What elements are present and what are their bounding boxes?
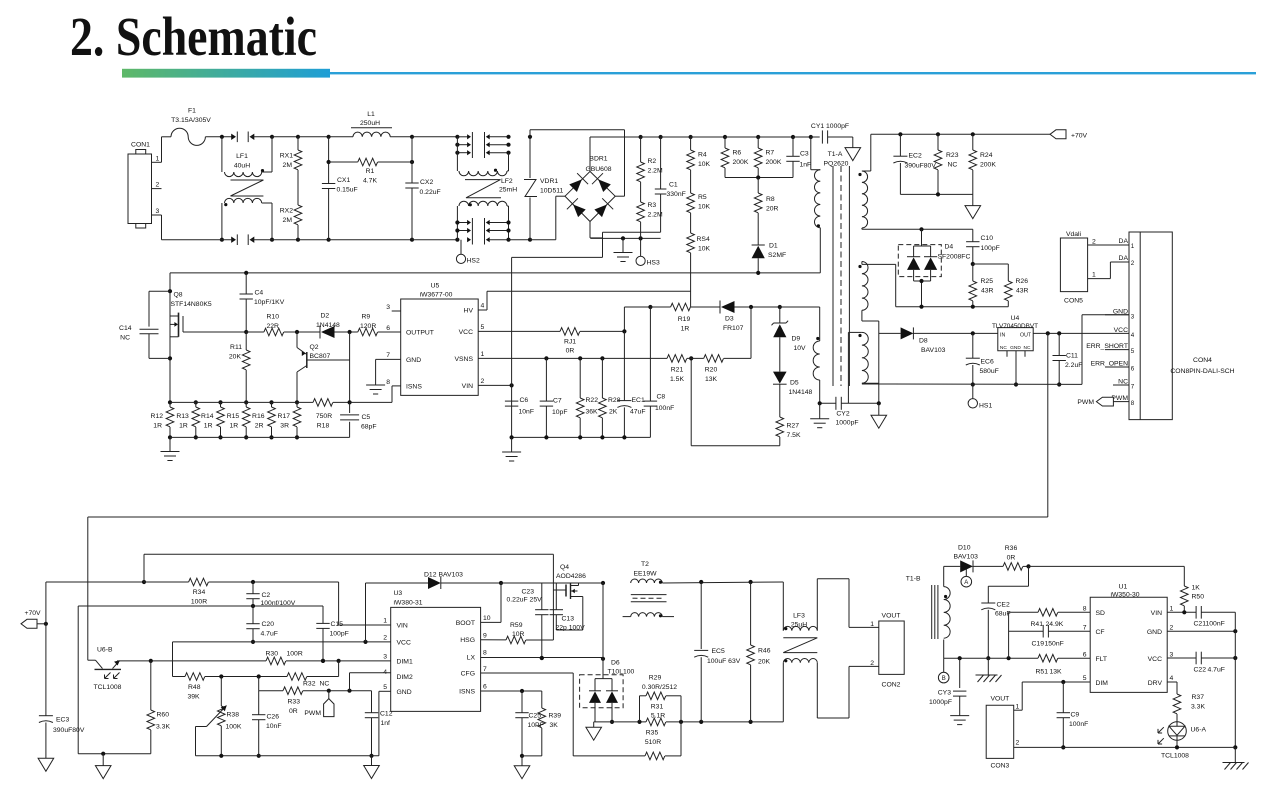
circle A probe	[961, 566, 972, 587]
ground at R12	[161, 437, 180, 460]
svg-text:TCL1008: TCL1008	[1161, 753, 1189, 760]
svg-text:2: 2	[870, 660, 874, 667]
svg-text:7: 7	[386, 352, 390, 359]
capacitor EC3	[39, 716, 85, 759]
IC U1 iW350-30	[1090, 584, 1167, 693]
U5 pin 8	[386, 379, 390, 386]
resistor R27	[776, 384, 801, 446]
resistor R28	[599, 358, 621, 437]
svg-text:3R: 3R	[280, 423, 289, 430]
T1 secondary W2	[858, 262, 868, 311]
svg-text:7: 7	[483, 666, 487, 673]
resistor R19	[650, 303, 690, 332]
svg-text:Vdali: Vdali	[1066, 231, 1082, 238]
svg-text:1: 1	[1170, 606, 1174, 613]
svg-text:R31: R31	[651, 704, 664, 711]
svg-text:BAV103: BAV103	[439, 572, 464, 579]
wire ISNS line	[481, 689, 542, 708]
svg-text:25uH: 25uH	[791, 622, 807, 629]
mosfet Q4	[556, 564, 586, 630]
wire CON1 pin1 to top rail	[162, 137, 172, 163]
svg-text:43R: 43R	[981, 288, 994, 295]
svg-text:43R: 43R	[1016, 288, 1029, 295]
CON4 pin NC	[1113, 379, 1135, 391]
svg-text:47uF: 47uF	[630, 409, 646, 416]
svg-text:3: 3	[156, 208, 160, 215]
svg-text:2: 2	[1131, 260, 1135, 267]
svg-text:C25: C25	[529, 713, 542, 720]
wire DC rail R7 to C3	[758, 135, 795, 139]
svg-text:ISNS: ISNS	[406, 384, 422, 391]
svg-text:3.3K: 3.3K	[156, 724, 170, 731]
svg-text:R26: R26	[1016, 278, 1029, 285]
resistor R51	[1036, 654, 1091, 675]
pin 3 CON1	[152, 208, 162, 215]
svg-text:DIM: DIM	[1096, 680, 1109, 687]
T1 primary winding	[811, 137, 821, 273]
svg-text:330nF: 330nF	[667, 191, 686, 198]
svg-text:HSG: HSG	[460, 637, 475, 644]
resistor R14	[201, 400, 224, 439]
svg-text:2.2uF: 2.2uF	[1065, 362, 1082, 369]
T1 secondary W1	[858, 134, 870, 228]
svg-text:R19: R19	[678, 316, 691, 323]
earth at C12	[364, 756, 380, 779]
U3 pin numbers right	[483, 615, 491, 691]
capacitor C6	[505, 397, 534, 416]
svg-text:3.3K: 3.3K	[1191, 704, 1205, 711]
svg-text:LX: LX	[467, 654, 476, 661]
svg-text:HV: HV	[464, 308, 474, 315]
svg-text:SD: SD	[1096, 610, 1106, 617]
wire VIN branch rail	[144, 580, 339, 584]
svg-text:R4: R4	[698, 152, 707, 159]
svg-text:10nF: 10nF	[519, 409, 535, 416]
svg-text:R3: R3	[648, 202, 657, 209]
svg-text:L1: L1	[367, 111, 375, 118]
wire CON5 pin1 to DA2	[1088, 262, 1129, 279]
CON4 pin DA1	[1119, 238, 1135, 250]
capacitor EC2	[893, 134, 936, 194]
earth at D6	[586, 722, 602, 740]
svg-text:GND: GND	[406, 357, 421, 364]
svg-text:4.7K: 4.7K	[363, 178, 377, 185]
svg-text:SF2008FC: SF2008FC	[938, 254, 971, 261]
svg-text:NC: NC	[1118, 379, 1128, 386]
svg-text:2R: 2R	[255, 423, 264, 430]
resistor R21	[667, 355, 693, 383]
svg-text:D6: D6	[611, 660, 620, 667]
earth at U6-B	[95, 754, 111, 779]
wire HSG R59	[481, 639, 506, 641]
U5 pin 6	[386, 325, 390, 332]
svg-text:R9: R9	[362, 314, 371, 321]
svg-text:A: A	[964, 580, 968, 586]
svg-text:0R: 0R	[1007, 555, 1016, 562]
zener D9	[772, 307, 807, 352]
resistor R7	[754, 137, 781, 178]
resistor R24	[969, 134, 996, 194]
capacitor CX1	[322, 137, 358, 240]
svg-text:R8: R8	[766, 196, 775, 203]
svg-text:iW350-30: iW350-30	[1110, 592, 1139, 599]
svg-text:NC: NC	[120, 335, 130, 342]
T1 aux winding	[813, 307, 820, 403]
resistor R11	[229, 332, 250, 402]
resistor R16	[252, 400, 275, 439]
svg-text:4: 4	[1170, 675, 1174, 682]
svg-text:CX2: CX2	[420, 179, 433, 186]
wire W2 to D4 rail	[862, 264, 896, 306]
svg-text:6: 6	[1083, 652, 1087, 659]
wire top rail L1 to CX2	[390, 135, 414, 139]
svg-text:GND: GND	[1147, 629, 1162, 636]
diode D2	[316, 313, 358, 339]
svg-text:4.7uF: 4.7uF	[261, 631, 278, 638]
transistor Q2	[297, 332, 350, 402]
wire CON1 pin3 to bottom rail	[161, 215, 163, 240]
svg-text:EC3: EC3	[56, 717, 69, 724]
resistor R39	[538, 708, 561, 756]
choke LF3	[783, 582, 817, 722]
wire out rail top	[662, 580, 783, 584]
svg-text:GBU608: GBU608	[585, 166, 611, 173]
svg-text:2K: 2K	[609, 409, 618, 416]
svg-text:R11: R11	[230, 344, 242, 351]
capacitor EC6	[966, 333, 999, 386]
svg-text:3K: 3K	[550, 722, 559, 729]
diode D5	[773, 372, 813, 396]
svg-text:5: 5	[481, 324, 485, 331]
wire left drop	[78, 604, 323, 754]
mosfet Q8	[168, 273, 246, 403]
capacitor C23	[507, 583, 549, 660]
svg-text:13K: 13K	[705, 376, 718, 383]
earth at EC3	[38, 758, 54, 771]
svg-text:R6: R6	[733, 150, 742, 157]
T1 core	[833, 166, 849, 386]
U1 pin numbers left	[1083, 606, 1087, 683]
wire R25 to R26 top	[973, 264, 1009, 281]
wire R36 to R50	[1029, 566, 1185, 586]
wire DC rail R2 to C1	[641, 135, 663, 139]
svg-text:120R: 120R	[360, 323, 376, 330]
pin 2 CON1	[152, 182, 162, 189]
resistor R35	[573, 722, 681, 760]
svg-text:T3.15A/305V: T3.15A/305V	[171, 117, 211, 124]
svg-text:10D511: 10D511	[540, 188, 564, 195]
resistor RX1	[280, 137, 302, 170]
T1 secondary W3	[848, 332, 868, 403]
svg-text:C15: C15	[331, 621, 344, 628]
wire boot drop	[553, 554, 566, 640]
svg-text:580uF: 580uF	[980, 368, 999, 375]
wire R4 to R5	[690, 170, 692, 193]
earth at CY2 right	[871, 403, 887, 428]
wire LX line	[481, 656, 606, 661]
resistor R15	[227, 400, 250, 439]
bridge rectifier BDR1	[565, 156, 615, 222]
capacitor CE2	[981, 602, 1010, 661]
svg-text:6: 6	[483, 684, 487, 691]
CON4 pin GND	[1105, 308, 1135, 320]
svg-text:10nF: 10nF	[266, 723, 282, 730]
svg-text:RX1: RX1	[280, 153, 293, 160]
diode D10	[954, 545, 1004, 573]
wire DIM1 line	[117, 659, 341, 663]
svg-text:1: 1	[383, 618, 387, 625]
svg-text:R17: R17	[278, 413, 291, 420]
wire bottom rail to LF2	[412, 238, 460, 242]
svg-text:R37: R37	[1192, 694, 1205, 701]
wire DIM2 jog	[350, 673, 391, 691]
svg-text:D1: D1	[769, 243, 778, 250]
wire sense rail	[170, 401, 313, 403]
svg-text:R41: R41	[1031, 621, 1044, 628]
svg-text:GND: GND	[1010, 345, 1021, 351]
svg-text:C14: C14	[119, 325, 132, 332]
U3 pin numbers left	[383, 618, 387, 692]
title text	[70, 6, 317, 67]
svg-text:CFG: CFG	[461, 671, 475, 678]
svg-text:LF2: LF2	[501, 178, 513, 185]
wire CON5 pin2 to DA1	[1088, 239, 1129, 246]
resistor R5	[687, 193, 711, 213]
U5 pin 1	[481, 351, 485, 358]
svg-text:T1-B: T1-B	[906, 576, 921, 583]
svg-text:EC2: EC2	[909, 153, 922, 160]
svg-text:100pF: 100pF	[330, 631, 349, 638]
diode pair D6	[580, 660, 635, 725]
wire RS4 to HV	[478, 253, 690, 310]
svg-text:VDR1: VDR1	[540, 178, 558, 185]
svg-text:B: B	[942, 676, 946, 682]
ground at U5 GND	[366, 359, 401, 394]
svg-text:0R: 0R	[566, 348, 575, 355]
svg-text:CON8PIN-DALI-SCH: CON8PIN-DALI-SCH	[1170, 368, 1234, 375]
wire D4 R25 R26 bottom	[896, 305, 1009, 309]
svg-text:VOUT: VOUT	[882, 613, 901, 620]
svg-text:BC807: BC807	[310, 353, 331, 360]
wire D3 to aux winding	[780, 306, 820, 308]
svg-text:C9: C9	[1071, 712, 1080, 719]
pin 1 CON1	[152, 156, 162, 163]
capacitor C4	[240, 273, 285, 334]
wire DC rail R4 to R6	[691, 135, 728, 139]
svg-text:C22: C22	[1194, 667, 1207, 674]
svg-text:10K: 10K	[698, 204, 711, 211]
svg-text:2M: 2M	[283, 162, 293, 169]
wire R27 to R21 node	[691, 358, 780, 445]
wire D9 to D5	[779, 337, 781, 371]
svg-text:NC: NC	[948, 162, 958, 169]
svg-text:C5: C5	[362, 414, 371, 421]
svg-text:VCC: VCC	[397, 639, 411, 646]
svg-text:EC5: EC5	[712, 648, 725, 655]
svg-text:CON5: CON5	[1064, 298, 1083, 305]
svg-text:2: 2	[481, 378, 485, 385]
svg-text:22p 100V: 22p 100V	[556, 625, 586, 632]
wire U5 gnd rail	[510, 435, 651, 439]
svg-text:0.22uF: 0.22uF	[420, 189, 441, 196]
choke LF1	[222, 137, 272, 240]
wire R48 line	[173, 676, 186, 678]
svg-text:OUT: OUT	[1020, 333, 1032, 339]
svg-text:0.30R/2512: 0.30R/2512	[642, 684, 677, 691]
wire VCC long drop	[1047, 333, 1049, 517]
U1 pin numbers right	[1170, 606, 1174, 683]
wire FLT rail	[944, 656, 1038, 660]
resistor R50	[1181, 585, 1205, 613]
svg-text:1K: 1K	[1192, 585, 1201, 592]
svg-text:R39: R39	[549, 713, 562, 720]
U5 pin 5	[481, 324, 485, 331]
svg-text:C13: C13	[562, 616, 575, 623]
svg-text:1nF: 1nF	[800, 162, 812, 169]
svg-text:D12: D12	[424, 572, 437, 579]
svg-text:R23: R23	[946, 152, 959, 159]
flag +70V	[1050, 130, 1088, 140]
svg-text:10pF: 10pF	[552, 409, 568, 416]
svg-text:1N4148: 1N4148	[316, 322, 340, 329]
resistor R59	[506, 622, 553, 644]
svg-text:R13: R13	[176, 413, 189, 420]
wire U4 out line	[1033, 331, 1129, 335]
choke LF2 top lines	[455, 132, 510, 158]
svg-text:10: 10	[483, 615, 491, 622]
svg-text:8: 8	[1083, 606, 1087, 613]
svg-text:22R: 22R	[267, 323, 280, 330]
ground at bridge	[614, 238, 633, 261]
capacitor C14	[119, 291, 170, 358]
svg-text:R60: R60	[157, 712, 170, 719]
diode D1	[752, 213, 787, 273]
resistor RJ1	[478, 328, 626, 355]
capacitor C3	[786, 137, 811, 178]
heatsink HS1	[968, 385, 992, 410]
wire CFG line	[481, 673, 574, 756]
svg-text:68pF: 68pF	[361, 424, 377, 431]
svg-text:R5: R5	[698, 194, 707, 201]
svg-text:25mH: 25mH	[499, 187, 517, 194]
svg-text:100uF 63V: 100uF 63V	[707, 658, 741, 665]
svg-text:C7: C7	[553, 398, 562, 405]
resistor R32	[287, 661, 339, 688]
svg-text:1: 1	[870, 621, 874, 628]
svg-text:PWM: PWM	[304, 710, 321, 717]
svg-text:R10: R10	[267, 314, 280, 321]
svg-text:R29: R29	[649, 675, 662, 682]
CON4 pin ERR_OPEN	[1091, 361, 1135, 373]
resistor R33	[259, 687, 372, 715]
resistor R46	[747, 582, 771, 722]
wire R2 to R3	[640, 182, 642, 202]
svg-text:8: 8	[483, 650, 487, 657]
svg-text:4: 4	[481, 303, 485, 310]
svg-text:STF14N80K5: STF14N80K5	[171, 301, 212, 308]
svg-text:AOD4286: AOD4286	[556, 573, 586, 580]
capacitor C21	[1194, 606, 1236, 628]
svg-text:R33: R33	[288, 699, 301, 706]
svg-text:BDR1: BDR1	[589, 156, 607, 163]
svg-text:U1: U1	[1119, 584, 1128, 591]
svg-text:CON2: CON2	[882, 682, 901, 689]
wire VCC to R19 riser	[624, 305, 652, 332]
svg-text:200K: 200K	[733, 159, 749, 166]
svg-text:DIM1: DIM1	[397, 658, 413, 665]
svg-text:NC: NC	[1024, 345, 1031, 351]
svg-text:VOUT: VOUT	[990, 696, 1009, 703]
svg-text:C8: C8	[657, 394, 666, 401]
wire U1 DIM line	[1022, 680, 1090, 710]
wire top rail F1 to LF1	[205, 135, 233, 139]
flag +70V lower	[21, 610, 48, 628]
resistor R12	[151, 400, 174, 439]
svg-text:8: 8	[386, 379, 390, 386]
resistor R4	[687, 137, 711, 170]
svg-text:R14: R14	[201, 413, 214, 420]
resistor R6	[721, 137, 749, 178]
wire LF3 top out	[817, 579, 879, 631]
svg-text:150nF: 150nF	[1045, 641, 1064, 648]
capacitor C10	[966, 229, 1000, 266]
svg-text:U4: U4	[1011, 315, 1020, 322]
svg-text:C10: C10	[981, 235, 994, 242]
svg-text:4: 4	[1131, 332, 1135, 339]
wire VIN line	[478, 273, 514, 438]
wire sense rail ISNS	[350, 386, 401, 403]
wire VSNS line	[478, 356, 667, 360]
svg-text:U5: U5	[431, 283, 440, 290]
svg-text:250uH: 250uH	[360, 120, 380, 127]
svg-text:13K: 13K	[1050, 669, 1063, 676]
CON4 pin ERR_SHORT	[1086, 343, 1135, 355]
svg-text:TLV70450DBVT: TLV70450DBVT	[992, 323, 1038, 330]
heatsink HS3	[636, 238, 660, 266]
transformer T1-B	[906, 576, 950, 640]
svg-text:100R: 100R	[191, 599, 207, 606]
svg-text:C20: C20	[262, 621, 275, 628]
svg-text:100K: 100K	[226, 724, 242, 731]
optocoupler U6-A	[1158, 722, 1206, 760]
diode D12	[366, 572, 504, 642]
svg-text:20R: 20R	[766, 206, 779, 213]
wire W2 bottom to D8	[862, 310, 879, 403]
CON4 pin PWM	[1111, 395, 1134, 407]
wire VIN jog	[339, 582, 391, 625]
svg-text:3: 3	[383, 654, 387, 661]
svg-text:100R: 100R	[287, 651, 303, 658]
svg-text:C4: C4	[255, 290, 264, 297]
capacitor C2	[246, 582, 295, 607]
wire lower right gnd rail	[1014, 745, 1236, 749]
svg-text:PWM: PWM	[1077, 399, 1094, 406]
svg-text:1: 1	[1016, 704, 1020, 711]
ground at CY3	[950, 716, 969, 725]
wire R6 R7 join	[725, 175, 793, 179]
svg-text:10V: 10V	[794, 345, 807, 352]
svg-text:40uH: 40uH	[234, 163, 250, 170]
svg-text:VIN: VIN	[1151, 610, 1162, 617]
resistor R37	[1173, 694, 1205, 722]
resistor R36	[1003, 545, 1031, 570]
svg-text:FLT: FLT	[1096, 656, 1108, 663]
resistor R23	[934, 134, 958, 194]
ground at C6	[502, 437, 521, 461]
svg-text:EC1: EC1	[632, 397, 645, 404]
svg-text:RX2: RX2	[280, 208, 293, 215]
svg-text:R22: R22	[586, 397, 599, 404]
